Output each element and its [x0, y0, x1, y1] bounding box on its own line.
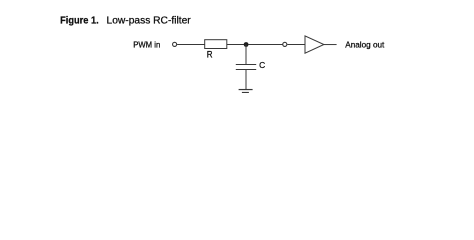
svg-text:R: R	[207, 50, 213, 61]
capacitor C top plate	[236, 64, 256, 66]
svg-text:Analog out: Analog out	[345, 39, 385, 49]
wire: node down to capacitor	[245, 45, 247, 65]
ground bar 1	[239, 89, 253, 91]
wire: resistor to node	[227, 44, 244, 46]
wire: node to buffer input terminal	[248, 44, 282, 46]
wire: capacitor to ground	[245, 70, 247, 90]
op-amp buffer U1 (triangle)	[305, 36, 324, 53]
input terminal (open circle)	[173, 42, 177, 46]
ground bar 2	[242, 91, 249, 93]
svg-text:Figure 1.: Figure 1.	[60, 16, 99, 27]
buffer input terminal (open circle)	[283, 42, 287, 46]
node junction dot	[244, 42, 249, 47]
wire: buffer output	[324, 44, 337, 46]
wire: input terminal to resistor	[177, 44, 205, 46]
svg-text:C: C	[259, 60, 265, 70]
resistor R	[205, 40, 227, 49]
svg-text:Low-pass RC-filter: Low-pass RC-filter	[107, 16, 192, 27]
capacitor C bottom plate	[236, 69, 256, 71]
svg-text:PWM in: PWM in	[133, 39, 160, 49]
wire: terminal to buffer	[287, 44, 305, 46]
